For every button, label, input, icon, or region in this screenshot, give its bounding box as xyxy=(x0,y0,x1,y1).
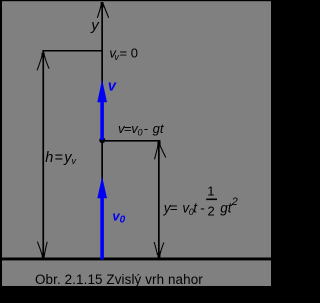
svg-text:2: 2 xyxy=(208,203,215,218)
svg-text:y: y xyxy=(90,17,100,34)
blue initial velocity vector v0 shaft xyxy=(100,196,104,260)
svg-text:1: 1 xyxy=(207,184,214,199)
blue velocity vector v head xyxy=(97,80,107,103)
right dimension top arrowhead xyxy=(155,146,166,160)
left dimension line h xyxy=(42,51,44,259)
ground line xyxy=(2,258,271,261)
right dimension line y xyxy=(158,141,160,259)
blue velocity vector v shaft xyxy=(100,99,104,140)
middle tick wire xyxy=(102,140,161,142)
right dimension bottom arrowhead xyxy=(154,242,164,256)
svg-text:vv= 0: vv= 0 xyxy=(109,46,138,62)
top tick wire xyxy=(42,50,102,52)
fraction bar xyxy=(206,199,217,201)
svg-text:Obr. 2.1.15 Zvislý vrh nahor: Obr. 2.1.15 Zvislý vrh nahor xyxy=(35,272,203,287)
blue initial velocity vector v0 head xyxy=(97,177,107,199)
y-axis arrowhead xyxy=(97,4,108,18)
left dimension top arrowhead xyxy=(37,56,49,71)
svg-text:v: v xyxy=(108,79,117,95)
y-axis line xyxy=(101,2,103,260)
gray figure panel xyxy=(2,1,271,286)
left dimension bottom arrowhead xyxy=(37,242,47,256)
node dot xyxy=(99,137,105,143)
